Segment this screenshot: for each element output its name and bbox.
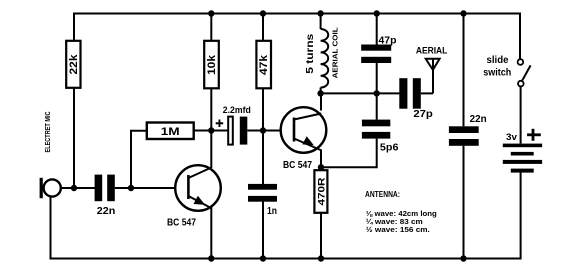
svg-text:10k: 10k bbox=[206, 54, 218, 75]
node top rail at 47k bbox=[260, 10, 266, 16]
capacitor C5 5p6 bbox=[362, 93, 390, 138]
svg-text:470R: 470R bbox=[317, 177, 328, 205]
svg-text:BC 547: BC 547 bbox=[167, 218, 196, 229]
node B: 47k bottom / Q2 base bbox=[260, 127, 266, 133]
node ground rail at Q1 emitter bbox=[208, 255, 214, 261]
wire C3 bottom to ground rail bbox=[262, 202, 264, 259]
svg-text:22n: 22n bbox=[470, 114, 487, 125]
wire 1M right to node A bbox=[194, 130, 228, 132]
transistor Q1 BC 547 bbox=[175, 165, 221, 211]
node top rail at 47p bbox=[374, 10, 380, 16]
capacitor C3 1n bbox=[248, 184, 277, 202]
svg-text:47p: 47p bbox=[379, 35, 397, 46]
svg-text:27p: 27p bbox=[413, 109, 433, 120]
wire C1 to Q1 base bbox=[115, 187, 175, 189]
svg-text:BC 547: BC 547 bbox=[283, 160, 312, 171]
node 1M branch junction bbox=[128, 185, 134, 191]
svg-text:3v: 3v bbox=[506, 132, 518, 143]
label antenna length notes bbox=[365, 190, 437, 234]
label C5 value 5p6 bbox=[380, 143, 399, 154]
wire node B down to C3 bbox=[262, 131, 264, 185]
label MIC1 ELECTRET MIC bbox=[43, 112, 52, 153]
resistor R2 1M bbox=[147, 123, 194, 140]
label R2 value 1M bbox=[161, 126, 180, 138]
svg-text:AERIAL COIL: AERIAL COIL bbox=[330, 27, 339, 79]
node ground rail at C3 bbox=[260, 255, 266, 261]
wire 470R to ground bbox=[320, 213, 322, 259]
label R4 value 47k bbox=[258, 54, 270, 75]
svg-text:switch: switch bbox=[483, 68, 511, 79]
wire RF node row bbox=[321, 92, 400, 94]
label antenna AERIAL bbox=[416, 46, 448, 57]
svg-text:ANTENNA:: ANTENNA: bbox=[365, 190, 400, 199]
resistor R4 47k bbox=[256, 41, 271, 89]
label C3 value 1n bbox=[267, 206, 277, 217]
label R3 value 10k bbox=[206, 54, 218, 75]
label C2 polarity + bbox=[216, 120, 224, 128]
resistor R1 22k bbox=[66, 41, 80, 88]
transistor Q2 BC 547 bbox=[281, 107, 327, 153]
capacitor C1 22n bbox=[95, 175, 115, 202]
wire C2 to 47k node bbox=[247, 130, 281, 132]
node ground rail at 470R bbox=[318, 255, 324, 261]
node coil bottom / Q2 collector bbox=[317, 90, 323, 96]
battery B1 3v bbox=[503, 144, 542, 173]
capacitor C6 27p bbox=[399, 78, 421, 109]
wire Q2 emitter down bbox=[320, 150, 322, 171]
label R1 value 22k bbox=[68, 54, 80, 75]
wire 1M left leg bbox=[131, 131, 147, 188]
label L1 5 turns bbox=[305, 33, 316, 74]
label C7 value 22n bbox=[470, 114, 487, 125]
wire bottom ground rail bbox=[51, 172, 521, 259]
label B1 value 3v bbox=[506, 132, 518, 143]
svg-text:slide: slide bbox=[487, 55, 509, 66]
label L1 AERIAL COIL bbox=[330, 27, 339, 79]
wire 10k top to rail bbox=[210, 14, 212, 42]
wire 5p6 return to Q2 emitter bbox=[321, 139, 377, 168]
wire Q2 collector to coil node bbox=[320, 93, 322, 110]
svg-text:ELECTRET MIC: ELECTRET MIC bbox=[43, 112, 52, 153]
label Q2 type BC 547 bbox=[283, 160, 312, 171]
wire switch to battery bbox=[520, 86, 522, 143]
svg-text:47k: 47k bbox=[258, 54, 270, 75]
svg-text:22k: 22k bbox=[68, 54, 80, 75]
svg-text:2.2mfd: 2.2mfd bbox=[223, 105, 251, 116]
wire 27p to antenna bbox=[421, 92, 433, 94]
node A: 10k/1M/C2/Q1 collector bbox=[208, 127, 214, 133]
node top rail at coil bbox=[317, 10, 323, 16]
capacitor C2 2.2mfd electrolytic bbox=[228, 117, 247, 145]
label Q1 type BC 547 bbox=[167, 218, 196, 229]
wire 47k bottom to node B bbox=[262, 88, 264, 130]
capacitor C4 47p bbox=[361, 14, 391, 94]
label C2 value 2.2mfd bbox=[223, 105, 251, 116]
node ground rail at 22n bbox=[460, 255, 466, 261]
resistor R5 470R bbox=[314, 170, 327, 213]
wire Q1 collector to node A bbox=[210, 131, 212, 169]
wire 47k top to rail bbox=[262, 14, 264, 42]
wire 10k bottom to node A bbox=[210, 88, 212, 130]
switch S1 slide switch bbox=[518, 59, 531, 86]
node Q2 emitter / 5p6 return / 470R bbox=[318, 164, 324, 170]
wire Q1 emitter to ground bbox=[210, 208, 212, 259]
capacitor C7 22n bbox=[449, 14, 479, 259]
label R5 value 470R bbox=[317, 177, 328, 205]
wire top supply rail bbox=[74, 14, 520, 60]
label C4 value 47p bbox=[379, 35, 397, 46]
inductor L1 aerial coil 5 turns bbox=[321, 14, 329, 94]
svg-text:AERIAL: AERIAL bbox=[416, 46, 448, 57]
node RF row at 47p/5p6 bbox=[374, 90, 380, 96]
electret mic MIC1 bbox=[40, 178, 61, 198]
svg-text:1M: 1M bbox=[161, 126, 180, 138]
label S1 slide switch bbox=[483, 55, 511, 79]
wire 22k bottom to mic node bbox=[73, 88, 75, 188]
label B1 polarity + bbox=[527, 129, 541, 141]
label C6 value 27p bbox=[413, 109, 433, 120]
svg-text:5p6: 5p6 bbox=[380, 143, 399, 154]
resistor R3 10k bbox=[204, 41, 219, 89]
svg-text:5 turns: 5 turns bbox=[305, 33, 316, 74]
svg-text:1n: 1n bbox=[267, 206, 277, 217]
wire mic to C1 bbox=[61, 187, 95, 189]
label C1 value 22n bbox=[97, 206, 116, 217]
node top rail at 10k bbox=[208, 10, 214, 16]
node mic/22k junction bbox=[71, 185, 77, 191]
svg-text:22n: 22n bbox=[97, 206, 116, 217]
svg-text:½ wave: 156 cm.: ½ wave: 156 cm. bbox=[366, 225, 430, 234]
node top rail at 22n bbox=[460, 10, 466, 16]
antenna AERIAL bbox=[426, 59, 440, 94]
